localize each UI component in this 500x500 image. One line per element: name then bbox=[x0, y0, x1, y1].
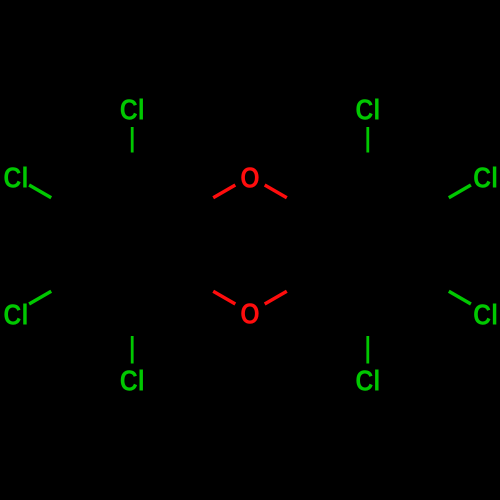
wire: bond C3-Cl (left-lower diagonal, green half) bbox=[29, 291, 51, 304]
svg-text:Cl: Cl bbox=[355, 94, 380, 126]
wire: bond O2-C4a (bottom oxygen to left fusion carbon, red half) bbox=[213, 291, 235, 304]
svg-text:Cl: Cl bbox=[473, 299, 498, 331]
wire: bond O1-C10 (top oxygen to right fusion carbon, red half) bbox=[265, 185, 287, 198]
svg-text:O: O bbox=[240, 298, 259, 330]
svg-text:Cl: Cl bbox=[120, 94, 145, 126]
wire: bond C8-Cl (right-lower diagonal, green half) bbox=[449, 291, 471, 304]
wire: bond C2-Cl (left-upper diagonal, green half) bbox=[29, 185, 51, 198]
wire: bond C4-Cl (bottom-left vertical, green half) bbox=[131, 336, 134, 364]
svg-text:Cl: Cl bbox=[3, 299, 28, 331]
svg-text:O: O bbox=[240, 162, 259, 194]
wire: bond C7-Cl (right-upper diagonal, green half) bbox=[449, 185, 471, 198]
wire: bond O2-C5 (bottom oxygen to right fusion carbon, red half) bbox=[265, 291, 287, 304]
svg-text:Cl: Cl bbox=[3, 162, 28, 194]
wire: bond C1-Cl (top-left vertical, green half) bbox=[131, 127, 134, 153]
svg-text:Cl: Cl bbox=[120, 365, 145, 397]
wire: bond C9-Cl (bottom-right vertical, green half) bbox=[366, 336, 369, 364]
wire: bond C6-Cl (top-right vertical, green half) bbox=[366, 127, 369, 153]
svg-text:Cl: Cl bbox=[355, 365, 380, 397]
wire: bond O1-C10a (top oxygen to left fusion carbon, red half) bbox=[213, 185, 235, 198]
svg-text:Cl: Cl bbox=[473, 162, 498, 194]
